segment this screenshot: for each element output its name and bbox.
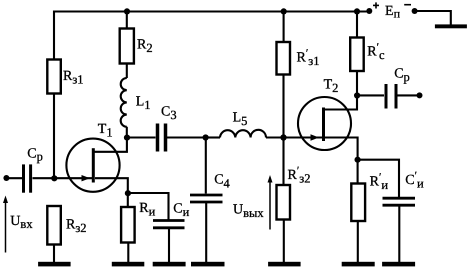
resistor R'з2: [277, 185, 291, 220]
svg-text:Cи: Cи: [173, 202, 189, 220]
svg-text:Uвых: Uвых: [233, 203, 264, 220]
svg-text:C4: C4: [214, 173, 230, 191]
svg-text:T2: T2: [324, 77, 339, 95]
wire node to R'з2: [282, 138, 284, 186]
wire C3 to node C4: [167, 136, 206, 138]
ground bar Rз2: [38, 262, 71, 267]
transistor T1 gate arrow: [82, 175, 91, 181]
wire C4 down: [205, 138, 207, 194]
svg-text:Cр: Cр: [27, 146, 43, 163]
ground bar R'и: [342, 262, 375, 267]
arrow Uвых: [268, 175, 273, 230]
ground bar C'и: [382, 262, 415, 267]
wire C4 to ground: [205, 203, 207, 263]
capacitor Cи: [153, 221, 185, 228]
wire node to T2 gate: [284, 136, 323, 138]
resistor R2: [120, 29, 134, 64]
node R2 rail: [124, 8, 130, 14]
wire top rail: [54, 12, 369, 179]
wire Rи down from node: [127, 193, 129, 207]
wire R2 to L1: [126, 64, 128, 79]
inductor L5: [220, 130, 266, 138]
wire Rз2 to ground: [53, 245, 55, 264]
wire R2 branch top: [126, 12, 128, 29]
transistor T2 circle: [298, 97, 351, 150]
wire input to Cp: [6, 177, 22, 179]
wire R'c to node: [356, 71, 358, 96]
transistor T2 drain wire: [325, 96, 357, 110]
capacitor Cp input: [24, 164, 31, 192]
wire node to C3: [127, 136, 156, 138]
wire R'з1 top: [283, 12, 285, 43]
terminal output: [417, 92, 423, 98]
wire Eп to chassis ground: [416, 11, 451, 25]
wire node to C'и: [358, 160, 399, 198]
wire node to R'и: [357, 160, 359, 184]
wire R'з1 to node: [282, 75, 284, 138]
svg-text:L5: L5: [233, 110, 248, 128]
resistor R'c: [350, 38, 364, 72]
node C4: [203, 134, 209, 140]
resistor R'з1: [277, 42, 291, 75]
node R'з1 rail: [281, 8, 287, 14]
label minus: [404, 4, 411, 6]
ground bar C4: [191, 262, 225, 267]
node input junction: [51, 175, 57, 181]
node T2 source: [355, 157, 361, 163]
transistor T1 circle: [66, 139, 119, 192]
svg-text:L1: L1: [136, 95, 151, 113]
terminal input: [3, 175, 9, 181]
wire node to Cи: [128, 193, 169, 221]
node T1 source: [125, 190, 131, 196]
wire node to L5: [206, 136, 220, 138]
ground bar R'з2: [268, 262, 301, 267]
transistor T1 channel bar: [92, 148, 95, 182]
svg-text:Uвх: Uвх: [10, 214, 33, 231]
capacitor C'и: [383, 198, 416, 205]
svg-text:Eп: Eп: [385, 4, 401, 20]
terminal Eп minus: [412, 8, 418, 14]
arrow Uвх: [3, 196, 8, 253]
wire Cp to T1 gate: [33, 177, 93, 179]
wire Cp output to terminal: [398, 94, 419, 96]
resistor Rи: [121, 207, 135, 243]
svg-text:R2: R2: [137, 38, 153, 56]
svg-text:T1: T1: [98, 122, 113, 140]
ground bar Rи: [112, 262, 145, 267]
wire Rи to ground: [127, 243, 129, 264]
capacitor C3: [158, 124, 166, 152]
transistor T1 source wire: [95, 178, 128, 193]
resistor Rз2: [47, 206, 61, 245]
transistor T2 source wire: [325, 138, 358, 160]
wire L5 to node: [266, 136, 284, 138]
svg-text:C3: C3: [161, 105, 177, 123]
capacitor Cp output: [386, 84, 396, 109]
inductor L1: [121, 78, 127, 127]
transistor T2 channel bar: [322, 108, 325, 142]
resistor R'и: [351, 184, 365, 222]
node T1 drain: [124, 135, 130, 141]
node R'c rail: [354, 8, 360, 14]
svg-text:Rз1: Rз1: [63, 69, 84, 87]
ground chassis top right: [435, 24, 467, 28]
node T2 drain: [354, 92, 360, 98]
transistor T1 drain wire: [95, 138, 127, 152]
wire R'з2 to ground: [283, 220, 285, 264]
capacitor C4: [190, 195, 223, 202]
node L5 right: [280, 134, 286, 140]
wire R'и to ground: [357, 221, 359, 263]
label plus: [373, 2, 379, 8]
wire Cи to ground: [168, 228, 170, 263]
ground bar Cи: [153, 262, 186, 267]
wire node to Cp output: [357, 94, 384, 96]
svg-text:Rз2: Rз2: [66, 218, 87, 236]
svg-text:Cр: Cр: [394, 66, 410, 83]
svg-text:Rи: Rи: [139, 201, 155, 219]
wire R'c top: [356, 12, 358, 38]
transistor T2 gate arrow: [311, 134, 320, 140]
wire L1 to node: [126, 127, 128, 138]
terminal Eп plus: [366, 8, 372, 14]
wire C'и to ground: [398, 206, 400, 264]
resistor Rз1: [47, 60, 61, 94]
